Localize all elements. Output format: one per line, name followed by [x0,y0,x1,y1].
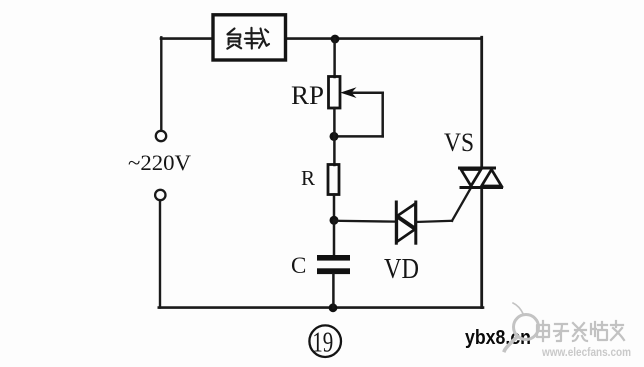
capacitor C bottom plate [317,268,350,274]
terminal upper (open circle) [156,131,166,141]
wire wiper loop bottom horizontal [334,135,383,138]
wire RP bottom to node, node to R [333,108,336,165]
wire center vertical: top node to RP [333,39,336,77]
svg-text:VD: VD [384,254,419,285]
figure number circled 19 [309,325,341,357]
svg-text:~220V: ~220V [128,150,191,175]
node junction top (load output) [331,35,340,44]
watermark text 电子发烧友 (stylized gray) [537,321,624,341]
node junction below RP [330,132,339,141]
wire right vertical lower (triac bottom to bottom rail) [480,188,483,308]
svg-text:R: R [301,166,315,190]
svg-text:RP: RP [291,81,324,110]
potentiometer RP wiper arrow [350,92,383,95]
wire wiper loop right vertical [381,93,384,137]
wire top horizontal from load box to top-right corner [286,37,482,40]
triac VS bottom bar [461,186,502,189]
svg-text:VS: VS [444,128,474,157]
diac VD left bar [395,202,398,243]
node junction below R (RC node) [330,216,339,225]
capacitor C top plate [317,255,350,261]
wire bottom rail [159,306,483,309]
label 负载 character 载 [245,28,269,49]
wire left vertical lower (lower terminal to bottom rail) [159,200,161,307]
triac VS top bar [460,167,495,170]
diac VD upper triangle (points left) [398,204,416,229]
wire right vertical upper (corner to triac top) [480,37,483,168]
wire diac to gate bend [416,221,452,222]
wire top-left horizontal from left branch to load box [161,37,213,40]
wire R bottom to node below R [333,195,336,222]
terminal lower (open circle) [155,190,165,200]
svg-text:C: C [291,253,306,278]
node junction bottom (capacitor to rail) [329,303,338,312]
wire gate diagonal to triac [452,188,471,221]
triac VS right triangle (points up) [482,170,502,187]
potentiometer RP body [329,77,341,109]
triac VS left triangle (points down) [461,170,481,187]
label 负载 character 负 [227,29,241,49]
svg-text:www.elecfans.com: www.elecfans.com [541,347,631,359]
diac VD right bar [414,202,417,243]
wire RC node to diac VD [334,220,395,223]
wire capacitor to bottom rail [332,274,335,308]
diac VD lower triangle (points right) [397,217,415,242]
watermark magnifier logo [505,303,539,351]
svg-text:19: 19 [312,326,333,358]
wire left vertical upper (top rail to upper terminal) [160,37,162,131]
load box 负载 [213,15,286,60]
resistor R body [328,165,339,195]
wire RC node down to capacitor [333,220,336,255]
